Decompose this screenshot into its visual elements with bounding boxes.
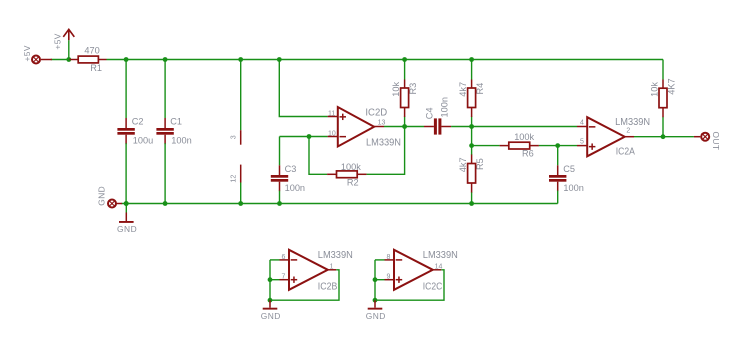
pin 6 stub [280,259,290,261]
svg-text:R5: R5 [475,158,485,170]
svg-text:C2: C2 [132,116,144,126]
pin 11 stub [328,116,338,118]
resistor R2 (100k) [327,171,367,178]
junction rail/pin11 branch [277,57,282,62]
wire pin10 net down to C3 [279,137,281,166]
op-amp IC2D (LM339N) [338,107,374,147]
wire to R6 [472,145,500,147]
wire IC2C + input [375,279,385,281]
svg-text:GND: GND [97,186,107,206]
wire C1 to bottom rail [164,143,166,203]
svg-text:LM339N: LM339N [366,138,401,149]
wire bottom GND rail [122,203,558,205]
junction R6 net/C5 [555,143,560,148]
svg-text:100n: 100n [440,97,450,117]
pin 12 stub (GND) [240,165,242,183]
resistor R6 (100k) [500,142,539,149]
svg-text:C1: C1 [170,116,182,126]
svg-text:12: 12 [229,175,238,183]
junction pin5 net/R5 [469,143,474,148]
wire R2 to IC2D output node [367,127,405,175]
wire +5V pad to junction [51,59,69,61]
svg-text:IC2B: IC2B [318,282,338,293]
svg-text:+5V: +5V [22,45,32,61]
op-amp IC2B (LM339N) [289,250,328,290]
junction IC2C inputs [373,277,378,282]
wire pin 12 to bottom rail [240,183,242,204]
svg-text:+5V: +5V [52,33,62,49]
wire rail corner down to 4K7 [662,60,664,80]
wire rail to C1 [164,60,166,119]
svg-text:IC2C: IC2C [423,282,443,293]
svg-text:10k: 10k [649,82,659,97]
junction C2/bottom rail [124,201,129,206]
wire rail to R4 [471,60,473,80]
svg-text:C5: C5 [563,164,575,174]
junction GND pad/rail [124,201,129,206]
supply symbol +5V arrow [63,29,74,40]
junction rail/C1 [163,57,168,62]
wire IC2B - input [270,259,280,261]
pad +5V [31,55,41,65]
wire IC2D output to C4 [384,126,424,128]
wire C5 to bottom rail [557,191,559,204]
svg-text:4k7: 4k7 [458,157,468,172]
op-amp IC2A (LM339N) [587,117,625,156]
svg-text:R4: R4 [475,83,485,95]
capacitor C5 (100n) [549,165,566,191]
svg-text:4: 4 [580,119,584,126]
wire between pin4 and pin5 nodes [471,127,473,146]
capacitor C2 (100u) [117,118,134,144]
wire IC2B + input [270,279,280,281]
wire C4 to IC2A pin 4 [451,126,577,128]
svg-text:4K7: 4K7 [666,78,676,94]
svg-text:GND: GND [261,311,281,321]
wire rail to C2 [125,60,127,119]
pin 7 stub [280,279,290,281]
pin 10 stub [328,136,338,138]
pin 5 stub [577,145,587,147]
op-amp IC2C (LM339N) [394,250,433,290]
wire junction down to C5 [557,146,559,166]
ground GND IC2B [261,300,281,321]
pin stub +5V pad [41,59,52,61]
junction arrow/rail [66,57,71,62]
svg-text:IC2A: IC2A [616,147,636,158]
svg-text:R1: R1 [90,63,102,73]
wire rail to IC2D pin 11 [279,60,327,117]
svg-text:100u: 100u [133,136,153,146]
ground GND IC2C [366,300,386,321]
wire junction down to R2 [309,137,327,175]
svg-text:100k: 100k [341,162,361,172]
svg-text:100n: 100n [563,183,583,193]
wire junction to GND symbol [125,204,127,213]
svg-text:R6: R6 [522,149,534,159]
capacitor C3 (100n) [271,165,288,191]
svg-text:C4: C4 [425,108,435,120]
resistor R3 (10k) [391,80,418,127]
pin 3 stub (VCC) [240,130,242,145]
wire IC2C output loop [375,270,444,300]
resistor R4 (4k7) [458,80,485,127]
svg-text:R3: R3 [408,83,418,95]
capacitor C4 (100n) [424,118,451,134]
junction rail/pin3 [238,57,243,62]
svg-text:470: 470 [84,46,99,56]
capacitor C1 (100n) [156,118,173,144]
pin 2 stub [625,136,634,138]
svg-text:3: 3 [229,135,238,139]
svg-text:LM339N: LM339N [615,117,650,128]
svg-text:11: 11 [328,110,335,117]
wire arrow to rail [68,40,70,59]
junction pin12/bottom rail [238,201,243,206]
resistor R1 (470) [70,56,107,63]
svg-text:R2: R2 [347,177,359,187]
svg-text:10k: 10k [391,81,401,96]
wire rail to pin 3 [240,60,242,131]
svg-text:4k7: 4k7 [458,82,468,97]
junction C3/bottom rail [277,201,282,206]
pin 13 stub [374,126,384,128]
pad GND [107,199,117,209]
wire IC2C input tie [374,260,376,300]
junction C4 net/R4 [469,124,474,129]
svg-text:2: 2 [626,128,630,135]
svg-text:100n: 100n [285,183,305,193]
svg-text:C3: C3 [285,164,297,174]
wire IC2B input tie [269,260,271,300]
junction R5/bottom rail [469,201,474,206]
junction rail/R3 [402,57,407,62]
junction IC2B inputs [268,277,273,282]
svg-text:13: 13 [378,119,386,126]
wire IC2B output loop [270,270,339,300]
pin 8 stub [385,259,395,261]
svg-text:LM339N: LM339N [423,250,458,261]
junction IC2B output/gnd [268,298,273,303]
svg-text:10: 10 [328,130,336,137]
pin stub OUT pad [694,136,700,138]
svg-text:GND: GND [366,311,386,321]
wire R6 to IC2A pin 5 [539,145,577,147]
svg-text:100k: 100k [514,132,534,142]
pin 4 stub [577,126,587,128]
ground GND main [117,213,137,235]
svg-text:100n: 100n [171,136,191,146]
wire C3 top to IC2D pin 10 [280,136,328,138]
junction IC2C output/gnd [373,298,378,303]
pin 9 stub [385,279,395,281]
wire C2 to bottom rail [125,143,127,203]
resistor 4K7 (10k) [649,78,676,136]
wire C3 to bottom rail [279,191,281,204]
resistor R5 (4k7) [458,146,485,204]
pin 1 stub [328,269,337,271]
wire rail to R3 [404,60,406,80]
junction output/R2/R3 [402,124,407,129]
pin stub GND pad [117,203,123,205]
pin 14 stub [433,269,442,271]
junction output/4K7 [661,134,666,139]
svg-text:GND: GND [117,224,137,234]
junction rail/R4 [469,57,474,62]
svg-text:5: 5 [580,139,584,146]
junction pin10/R2 [307,134,312,139]
svg-text:LM339N: LM339N [318,250,353,261]
junction rail/C2 [124,57,129,62]
junction C1/bottom rail [163,201,168,206]
wire IC2C - input [375,259,385,261]
svg-text:IC2D: IC2D [365,107,387,118]
wire top +5V rail [107,59,664,61]
wire IC2A output to OUT pad [634,136,694,138]
svg-text:OUT: OUT [711,132,721,151]
pad OUT [700,132,710,142]
